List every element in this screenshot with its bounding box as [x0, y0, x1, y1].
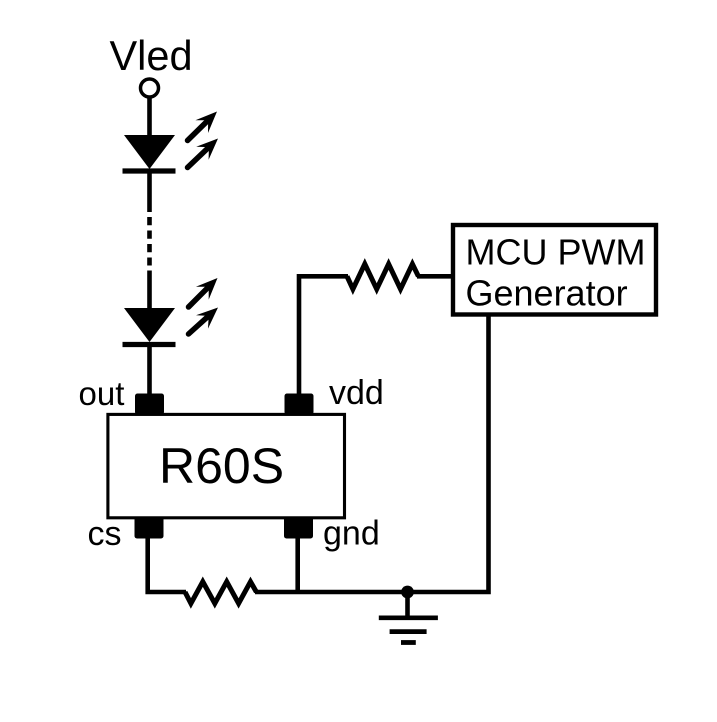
- wire vdd pin up and right to R1: [299, 276, 348, 395]
- wire dashed (more LEDs in series): [147, 217, 152, 266]
- wire to D2 anode: [147, 271, 152, 313]
- pin label out: [79, 375, 125, 412]
- svg-text:Vled: Vled: [110, 32, 193, 79]
- LED D2: [123, 308, 176, 345]
- pin label gnd: [323, 515, 380, 553]
- pin vdd of U1: [285, 394, 314, 415]
- resistor R2: [185, 582, 256, 604]
- LED D2 emission arrows: [189, 278, 219, 334]
- junction dot gnd net: [401, 586, 414, 599]
- block MCU PWM Generator: [453, 225, 656, 315]
- svg-text:MCU PWM: MCU PWM: [466, 232, 646, 273]
- svg-text:out: out: [79, 375, 125, 412]
- svg-text:vdd: vdd: [329, 374, 384, 412]
- wire Vled to D1 anode: [147, 97, 152, 139]
- pin cs of U1: [135, 517, 164, 539]
- svg-text:cs: cs: [88, 515, 122, 553]
- node Vled label: [110, 32, 193, 79]
- wire cs pin down to R2: [148, 537, 186, 592]
- resistor R1: [347, 264, 418, 289]
- ground: [379, 592, 438, 643]
- pin label vdd: [329, 374, 384, 412]
- pin gnd of U1: [284, 517, 313, 539]
- wire D2 cathode to out pin: [147, 345, 152, 398]
- svg-text:R60S: R60S: [159, 438, 284, 494]
- pin out of U1: [135, 394, 164, 415]
- wire MCU bottom down to gnd net: [405, 316, 489, 592]
- LED D1: [123, 135, 176, 171]
- svg-text:Generator: Generator: [466, 273, 628, 314]
- wire R1 to MCU box: [417, 274, 453, 279]
- pin label cs: [88, 515, 122, 553]
- svg-text:gnd: gnd: [323, 515, 380, 553]
- IC U1 R60S body: [108, 414, 345, 517]
- wire R2 to gnd pin junction: [255, 590, 407, 595]
- terminal Vled: [141, 79, 159, 97]
- LED D1 emission arrows: [188, 112, 219, 168]
- wire gnd pin down: [295, 537, 300, 592]
- wire D1 cathode down: [147, 171, 152, 212]
